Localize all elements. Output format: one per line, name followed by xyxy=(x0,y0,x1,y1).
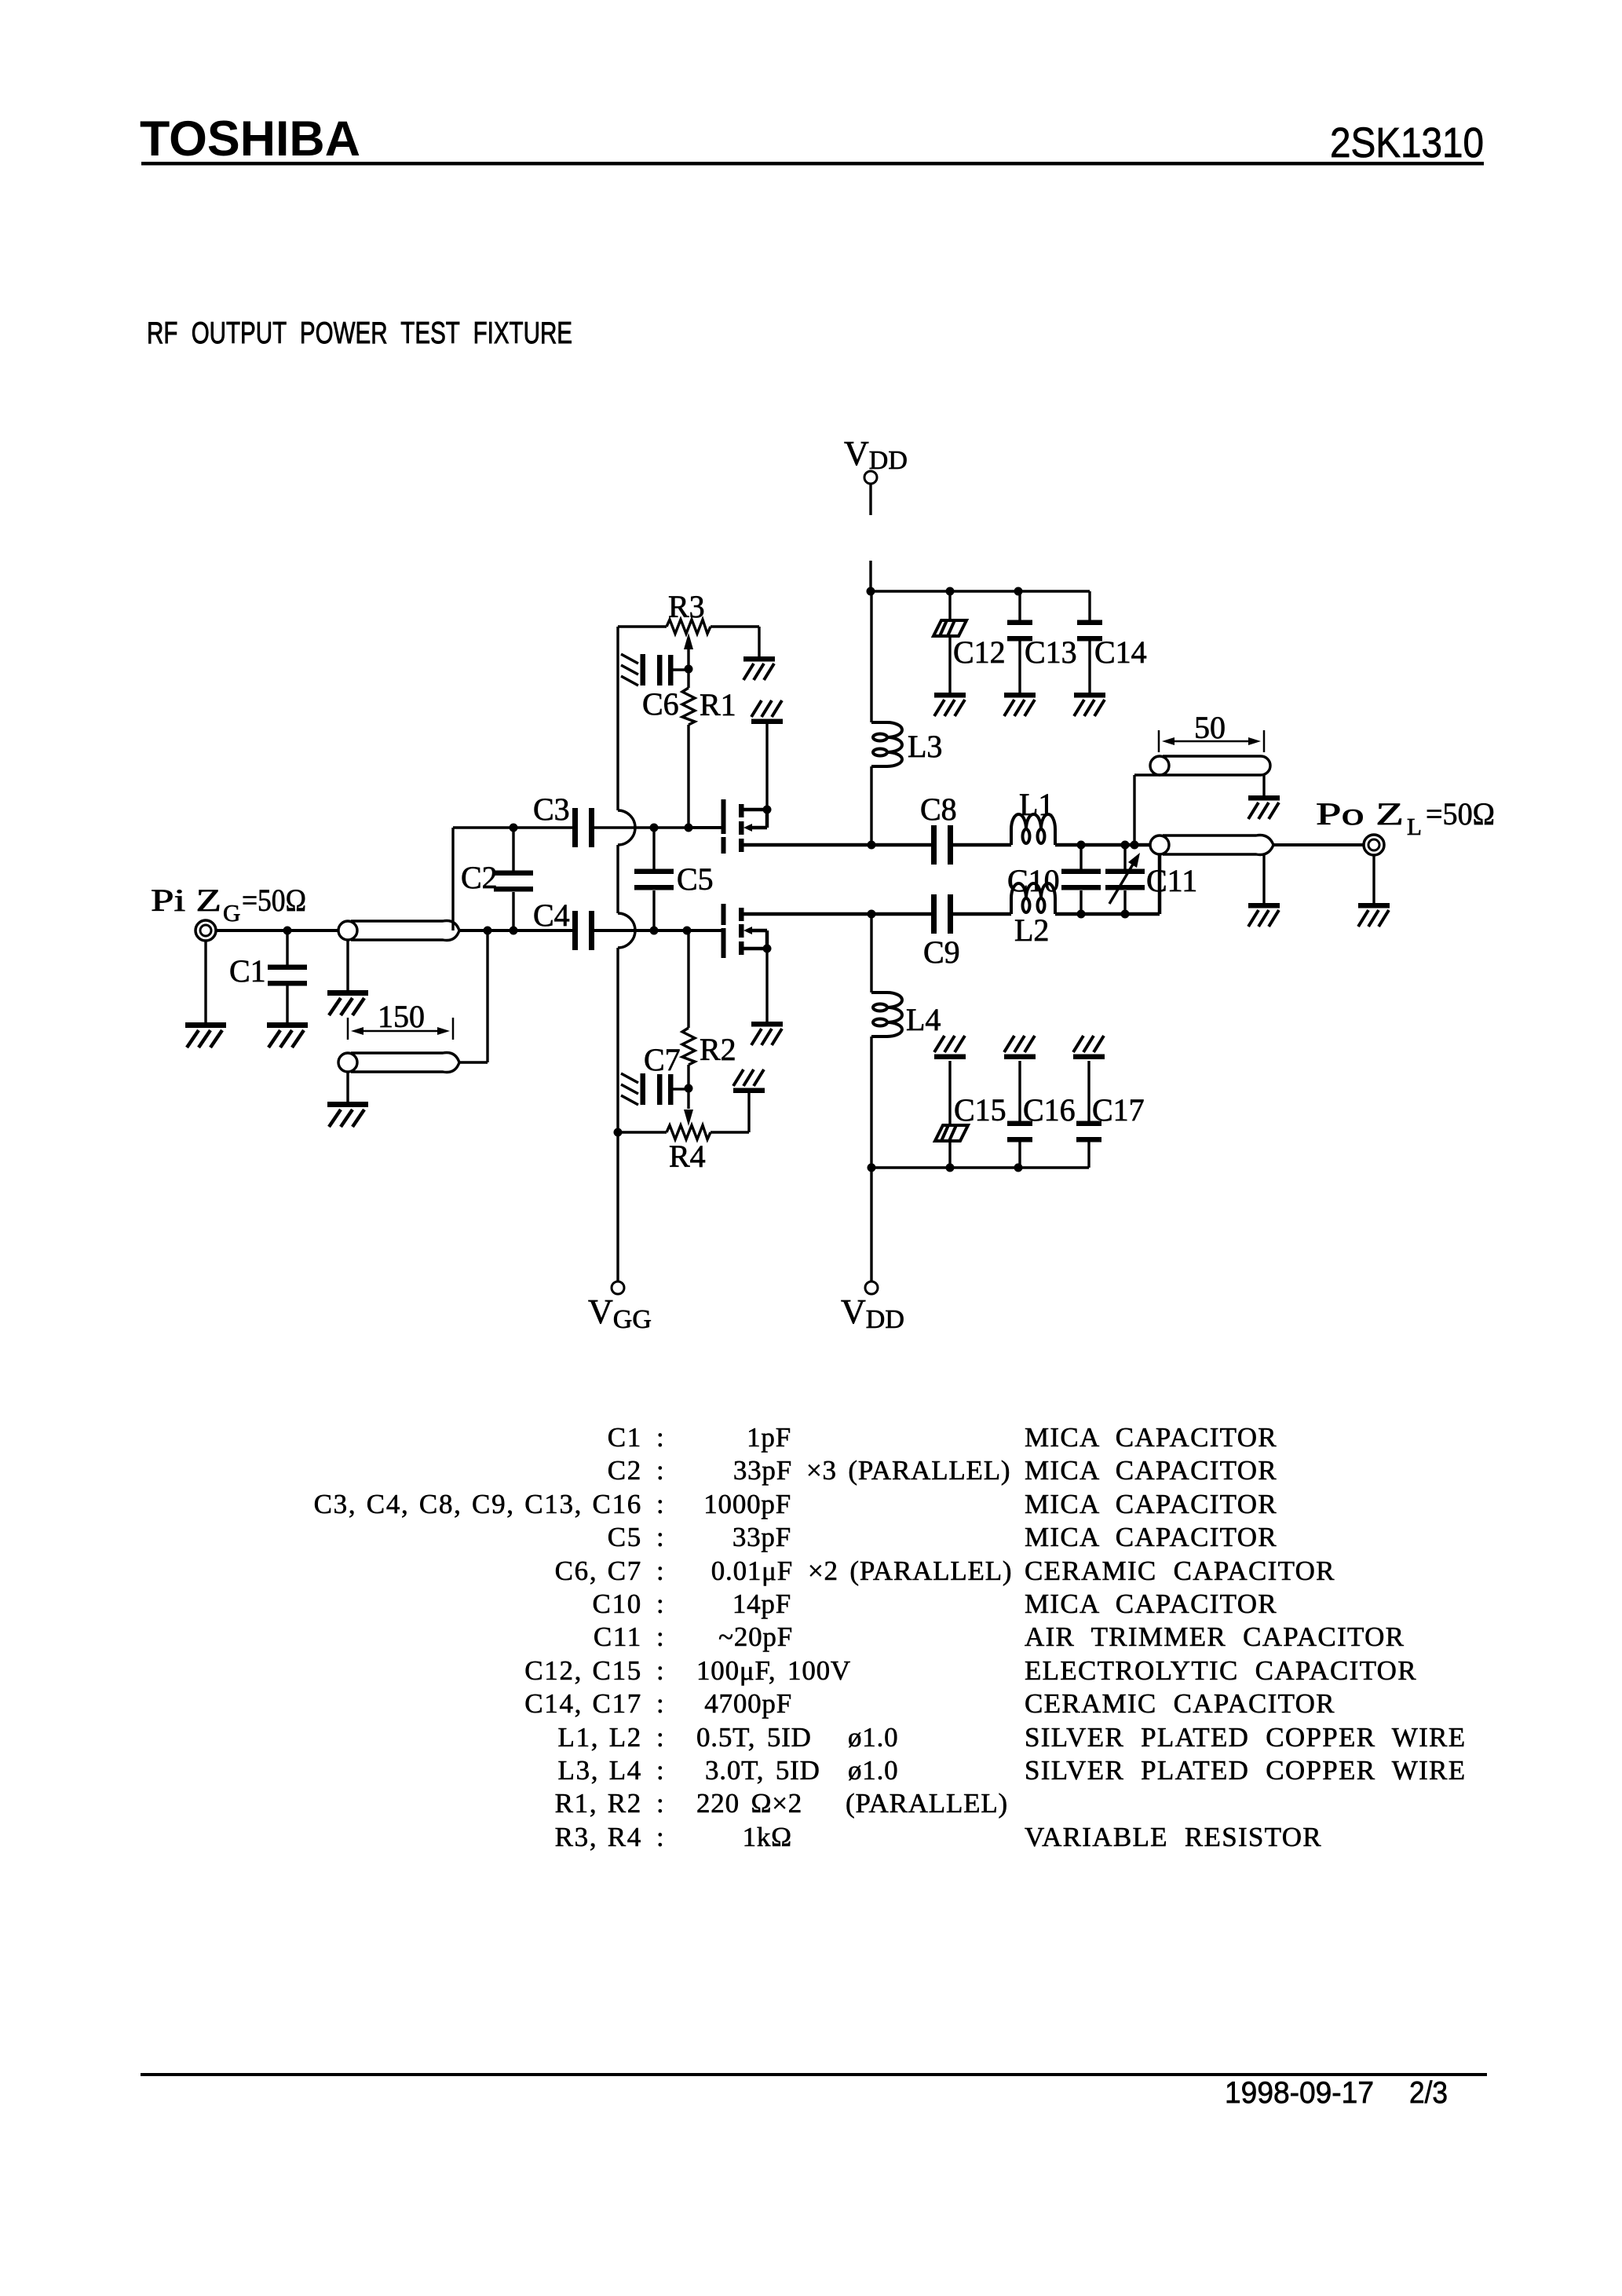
svg-text:1kΩ: 1kΩ xyxy=(743,1822,792,1852)
svg-text:C3, C4, C8, C9, C13, C16: C3, C4, C8, C9, C13, C16 xyxy=(314,1489,642,1519)
svg-text:L3, L4: L3, L4 xyxy=(558,1755,642,1786)
svg-text:2/3: 2/3 xyxy=(1409,2076,1448,2110)
svg-text:(PARALLEL): (PARALLEL) xyxy=(846,1788,1008,1819)
svg-text:L3: L3 xyxy=(908,729,942,764)
svg-text:0.5T, 5ID: 0.5T, 5ID xyxy=(696,1722,812,1753)
svg-text:C15: C15 xyxy=(954,1092,1006,1128)
svg-text::: : xyxy=(656,1755,664,1786)
svg-text:Pi Z: Pi Z xyxy=(151,883,221,918)
svg-text:VARIABLE RESISTOR: VARIABLE RESISTOR xyxy=(1025,1822,1322,1852)
svg-text:C2: C2 xyxy=(461,860,498,895)
svg-text:R1: R1 xyxy=(700,687,736,722)
svg-text:CERAMIC CAPACITOR: CERAMIC CAPACITOR xyxy=(1025,1556,1335,1586)
svg-text:MICA CAPACITOR: MICA CAPACITOR xyxy=(1025,1589,1277,1619)
svg-text:R3, R4: R3, R4 xyxy=(555,1822,642,1852)
svg-text:150: 150 xyxy=(378,999,425,1034)
svg-text:C3: C3 xyxy=(533,792,570,827)
svg-text:MICA CAPACITOR: MICA CAPACITOR xyxy=(1025,1455,1277,1486)
svg-text::: : xyxy=(656,1589,664,1619)
svg-text:33pF: 33pF xyxy=(732,1522,791,1552)
svg-text:1000pF: 1000pF xyxy=(703,1489,791,1519)
svg-text:C11: C11 xyxy=(1146,863,1197,898)
svg-text:~20pF: ~20pF xyxy=(718,1621,793,1652)
svg-text:100μF, 100V: 100μF, 100V xyxy=(696,1655,851,1686)
svg-text::: : xyxy=(656,1556,664,1586)
svg-text::: : xyxy=(656,1822,664,1852)
svg-text:C6, C7: C6, C7 xyxy=(555,1556,642,1586)
svg-text:C5: C5 xyxy=(677,861,714,897)
svg-text::: : xyxy=(656,1422,664,1453)
svg-text:G: G xyxy=(223,899,240,927)
svg-text:C4: C4 xyxy=(533,898,570,933)
svg-text:ELECTROLYTIC CAPACITOR: ELECTROLYTIC CAPACITOR xyxy=(1025,1655,1417,1686)
svg-text:MICA CAPACITOR: MICA CAPACITOR xyxy=(1025,1522,1277,1552)
svg-text:RF OUTPUT POWER TEST FIXTURE: RF OUTPUT POWER TEST FIXTURE xyxy=(147,316,572,350)
svg-text:C12: C12 xyxy=(953,634,1006,670)
svg-text:R1, R2: R1, R2 xyxy=(555,1788,642,1819)
svg-text::: : xyxy=(656,1655,664,1686)
svg-text:L: L xyxy=(1407,813,1422,840)
svg-text:R3: R3 xyxy=(668,589,705,624)
svg-text:MICA CAPACITOR: MICA CAPACITOR xyxy=(1025,1489,1277,1519)
svg-text:C12, C15: C12, C15 xyxy=(524,1655,642,1686)
svg-text:R4: R4 xyxy=(669,1139,706,1174)
svg-text:TOSHIBA: TOSHIBA xyxy=(140,112,360,166)
svg-text:Po Z: Po Z xyxy=(1316,796,1404,832)
svg-text:C1: C1 xyxy=(229,953,266,989)
svg-text:L1, L2: L1, L2 xyxy=(558,1722,642,1753)
svg-text:220 Ω×2: 220 Ω×2 xyxy=(696,1788,802,1819)
svg-text:2SK1310: 2SK1310 xyxy=(1330,119,1484,166)
svg-text:C9: C9 xyxy=(923,934,960,970)
svg-text:14pF: 14pF xyxy=(732,1589,791,1619)
svg-text::: : xyxy=(656,1688,664,1719)
svg-text:SILVER PLATED COPPER WIRE: SILVER PLATED COPPER WIRE xyxy=(1025,1722,1466,1753)
svg-text:4700pF: 4700pF xyxy=(704,1688,792,1719)
svg-text::: : xyxy=(656,1621,664,1652)
svg-text:CERAMIC CAPACITOR: CERAMIC CAPACITOR xyxy=(1025,1688,1335,1719)
svg-text:C16: C16 xyxy=(1023,1092,1076,1128)
svg-text:MICA CAPACITOR: MICA CAPACITOR xyxy=(1025,1422,1277,1453)
svg-text:C2: C2 xyxy=(608,1455,642,1486)
svg-text:=50Ω: =50Ω xyxy=(242,883,306,918)
svg-text:C8: C8 xyxy=(920,792,957,827)
svg-text::: : xyxy=(656,1455,664,1486)
svg-text:3.0T, 5ID: 3.0T, 5ID xyxy=(705,1755,820,1786)
svg-text:C10: C10 xyxy=(593,1589,642,1619)
svg-text:ø1.0: ø1.0 xyxy=(848,1722,898,1753)
svg-text:C7: C7 xyxy=(644,1042,681,1077)
svg-text::: : xyxy=(656,1522,664,1552)
svg-text:C14, C17: C14, C17 xyxy=(524,1688,642,1719)
svg-text:L1: L1 xyxy=(1019,787,1054,822)
svg-text::: : xyxy=(656,1722,664,1753)
svg-text:C11: C11 xyxy=(594,1621,642,1652)
svg-text::: : xyxy=(656,1788,664,1819)
svg-text:AIR TRIMMER CAPACITOR: AIR TRIMMER CAPACITOR xyxy=(1025,1621,1405,1652)
svg-text:C6: C6 xyxy=(642,686,679,722)
svg-text:L2: L2 xyxy=(1014,912,1049,948)
svg-text:C14: C14 xyxy=(1094,634,1147,670)
svg-text:1pF: 1pF xyxy=(747,1422,791,1453)
svg-text:R2: R2 xyxy=(700,1032,736,1067)
svg-text::: : xyxy=(656,1489,664,1519)
svg-text:C10: C10 xyxy=(1007,863,1060,898)
svg-text:C1: C1 xyxy=(608,1422,642,1453)
svg-text:50: 50 xyxy=(1194,710,1226,745)
svg-text:C17: C17 xyxy=(1092,1092,1145,1128)
svg-text:=50Ω: =50Ω xyxy=(1426,796,1495,832)
svg-text:0.01μF: 0.01μF xyxy=(711,1556,793,1586)
svg-text:SILVER PLATED COPPER WIRE: SILVER PLATED COPPER WIRE xyxy=(1025,1755,1466,1786)
svg-text:C5: C5 xyxy=(608,1522,642,1552)
svg-text:33pF: 33pF xyxy=(733,1455,792,1486)
svg-text:ø1.0: ø1.0 xyxy=(848,1755,898,1786)
svg-text:×2 (PARALLEL): ×2 (PARALLEL) xyxy=(808,1556,1012,1586)
svg-text:×3 (PARALLEL): ×3 (PARALLEL) xyxy=(806,1455,1010,1486)
svg-text:C13: C13 xyxy=(1025,634,1077,670)
svg-text:L4: L4 xyxy=(906,1002,941,1037)
svg-text:1998-09-17: 1998-09-17 xyxy=(1225,2076,1374,2110)
